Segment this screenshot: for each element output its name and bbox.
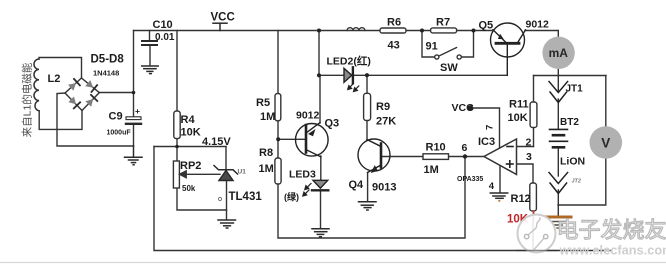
svg-text:L2: L2: [48, 73, 61, 85]
LED3 emission arrows: [303, 184, 311, 197]
red lead mark under R12: [533, 212, 535, 220]
wire Q3 emitter vertical: [319, 75, 321, 123]
svg-text:R4: R4: [181, 114, 196, 126]
transistor Q4: [358, 139, 390, 173]
resistor R11: [530, 102, 537, 128]
wire C10 stem: [149, 31, 151, 42]
wire R4 branch from rail: [176, 31, 178, 112]
wire LED2 branch from rail: [318, 31, 320, 76]
wire bottom rail segment over logo: [517, 250, 557, 252]
op-amp IC3 OPA335: [484, 139, 517, 175]
wire R8 bottom feedback to pin6: [278, 157, 465, 239]
resistor R4: [174, 111, 180, 139]
svg-text:(绿): (绿): [284, 191, 299, 202]
wire main DC+ vertical from rail to bridge to C9: [133, 31, 135, 117]
diode D7 bottom-left: [68, 97, 80, 109]
connector JT2: [549, 173, 568, 194]
svg-text:D5-D8: D5-D8: [91, 54, 125, 66]
resistor R6: [380, 28, 406, 33]
svg-text:R12: R12: [511, 193, 531, 205]
LED2 red diode: [344, 67, 353, 83]
wire Q4 emitter to ground: [367, 173, 369, 202]
svg-text:SW: SW: [440, 62, 458, 74]
wire top VCC rail left segment: [134, 30, 494, 32]
svg-text:1M: 1M: [424, 164, 439, 176]
wire TL431 anode to ground: [226, 180, 228, 220]
wire R10 to IC3 pin6: [449, 156, 485, 158]
transistor Q5: [491, 23, 526, 75]
shunt reference U1 TL431: [214, 166, 238, 181]
svg-text:R5: R5: [256, 97, 270, 109]
watermark share logo circle: [518, 215, 556, 253]
IC3 minus input mark: [507, 146, 513, 148]
svg-text:91: 91: [426, 41, 438, 53]
ground under C10: [142, 66, 159, 74]
wire LED2 cathode to R9 node and Q5 base: [354, 74, 507, 76]
svg-text:IC3: IC3: [478, 136, 495, 148]
svg-text:+: +: [135, 106, 140, 116]
svg-text:JT1: JT1: [566, 84, 584, 95]
svg-text:VCC: VCC: [211, 12, 235, 24]
svg-text:Q4: Q4: [349, 179, 365, 191]
svg-text:4.15V: 4.15V: [202, 136, 231, 148]
wire IC3 pin4 to ground: [499, 165, 501, 192]
wire 4.15V node horizontal: [154, 146, 226, 148]
svg-text:R11: R11: [509, 99, 529, 111]
wire IC3 pin2 to R11: [517, 146, 534, 148]
wire TL431 cathode vertical: [225, 147, 227, 170]
wire BT2 to JT2: [557, 147, 559, 176]
svg-text:mA: mA: [549, 46, 569, 60]
wire R5 to R8: [277, 121, 279, 158]
wire L2 bottom to bridge bottom corner: [39, 111, 82, 130]
voltmeter V: [590, 126, 623, 159]
svg-text:LiON: LiON: [560, 156, 585, 168]
svg-text:OPA335: OPA335: [457, 176, 483, 183]
svg-text:R9: R9: [376, 101, 390, 113]
IC3 plus input mark: [507, 161, 514, 167]
wire junction to JT1: [557, 76, 559, 92]
svg-text:9012: 9012: [296, 110, 320, 122]
ferrite bead bumps on rail: [347, 28, 365, 31]
inductor L2: [34, 59, 39, 111]
svg-text:Q3: Q3: [325, 118, 340, 130]
RP2 wiper arrow: [180, 171, 220, 178]
wire JT1 to BT2: [557, 99, 559, 129]
svg-text:R6: R6: [387, 17, 401, 29]
wire LED2 anode: [319, 74, 344, 76]
diode D5 top-left: [68, 79, 80, 91]
battery ground orange: [547, 217, 572, 228]
wire Q4 base to R10: [383, 156, 424, 158]
svg-text:U1: U1: [238, 169, 247, 176]
resistor R8: [275, 158, 281, 184]
svg-text:2: 2: [526, 137, 532, 149]
ground under IC3 pin4: [490, 193, 507, 202]
svg-text:LED2(红): LED2(红): [327, 54, 371, 67]
resistor R12: [530, 183, 537, 211]
wire RP2 bottom to TL431 anode: [177, 188, 227, 210]
svg-text:R10: R10: [426, 142, 446, 154]
svg-text:10K: 10K: [181, 126, 201, 138]
svg-text:TL431: TL431: [229, 191, 263, 203]
svg-text:1M: 1M: [259, 163, 274, 175]
capacitor C10: [142, 41, 157, 45]
svg-text:RP2: RP2: [180, 160, 201, 172]
svg-text:V: V: [601, 136, 610, 151]
wire V bottom to ground node: [558, 159, 606, 206]
svg-text:4: 4: [489, 181, 495, 192]
pin dot near TL431: [218, 197, 221, 200]
svg-text:www.elecfans.com: www.elecfans.com: [559, 243, 666, 258]
wire LED3 cathode to ground: [320, 192, 322, 229]
diode D6 top-right: [85, 80, 97, 92]
svg-text:1M: 1M: [260, 111, 275, 123]
wire Q3 collector to LED3: [320, 156, 322, 181]
svg-text:1000uF: 1000uF: [107, 130, 132, 137]
svg-text:7: 7: [485, 125, 496, 130]
wire L2 top to bridge top corner: [39, 58, 82, 79]
svg-text:50k: 50k: [182, 184, 196, 193]
VCC node dot for pin7: [468, 105, 474, 111]
wire meter junction horizontal: [534, 75, 607, 77]
svg-text:1N4148: 1N4148: [93, 69, 119, 78]
svg-text:VCC: VCC: [452, 102, 475, 114]
wire C9 bottom to ground node: [133, 124, 135, 146]
wire bridge - output down and right to ground node: [57, 93, 134, 146]
ground under TL431: [218, 220, 236, 228]
svg-text:Q5: Q5: [479, 20, 494, 32]
resistor R10: [423, 154, 449, 160]
wire IC3 pin7 VCC: [470, 108, 500, 148]
svg-text:电子发烧友: 电子发烧友: [557, 218, 666, 243]
svg-text:27K: 27K: [376, 115, 396, 127]
resistor R5: [275, 94, 281, 121]
svg-text:9013: 9013: [372, 182, 396, 194]
wire R5 branch from rail: [277, 31, 279, 94]
svg-text:R8: R8: [259, 147, 273, 159]
potentiometer RP2: [173, 161, 179, 188]
svg-text:3: 3: [526, 151, 532, 163]
LED3 green: [312, 180, 328, 190]
wire V branch vertical top: [605, 76, 607, 127]
wire R9 bottom to Q4 collector: [366, 121, 368, 140]
svg-text:R7: R7: [436, 17, 450, 29]
svg-text:6: 6: [462, 142, 468, 154]
ammeter mA: [542, 37, 574, 69]
svg-text:10K: 10K: [508, 112, 528, 124]
svg-text:LED3: LED3: [289, 168, 316, 180]
wire JT2 to battery ground: [557, 190, 559, 216]
wire R11 vertical top: [533, 76, 535, 103]
ground under C9: [125, 146, 143, 165]
svg-text:C9: C9: [109, 111, 123, 123]
svg-text:C10: C10: [153, 19, 173, 31]
switch SW: [422, 31, 474, 60]
diode D8 bottom-right: [85, 95, 97, 107]
svg-text:JT2: JT2: [572, 179, 581, 185]
transistor Q3: [296, 123, 329, 157]
wire R12 bottom to bottom rail: [532, 219, 534, 250]
wire Q3 base: [278, 138, 305, 140]
wire top rail right segment to mA: [525, 31, 558, 37]
junction node dots: [132, 29, 476, 159]
LED2 emission arrows: [348, 84, 359, 92]
wire R11 bottom: [533, 128, 535, 147]
ground under LED3: [312, 229, 329, 237]
wire feedback loop left vertical and bottom rail: [154, 147, 610, 251]
svg-text:9012: 9012: [526, 19, 550, 31]
ground under Q4: [359, 202, 377, 210]
wire bridge + output to C9 rail: [99, 92, 134, 94]
svg-text:0.01: 0.01: [155, 32, 175, 43]
power symbol VCC top: [213, 23, 227, 30]
wire R9 top: [366, 75, 368, 93]
bottom page edge line: [0, 262, 666, 264]
capacitor C9 electrolytic: [126, 117, 141, 124]
wire R4 bottom to 4.15V node: [176, 139, 178, 161]
svg-text:来自L1的电磁能: 来自L1的电磁能: [21, 62, 34, 137]
connector JT1: [549, 82, 568, 103]
wire IC3 pin3 to R12: [517, 164, 534, 183]
resistor R7: [431, 28, 457, 33]
svg-text:BT2: BT2: [560, 117, 579, 128]
diode bridge D5-D8 frame: [65, 78, 99, 111]
resistor R9: [364, 93, 371, 120]
svg-text:43: 43: [388, 40, 400, 52]
wire mA to junction: [557, 69, 559, 76]
battery BT2: [550, 129, 568, 147]
